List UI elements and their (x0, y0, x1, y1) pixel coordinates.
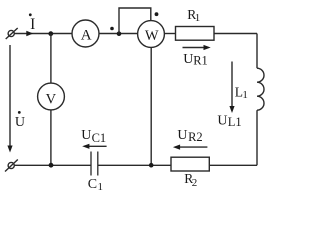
svg-text:U: U (15, 115, 25, 130)
wire: wattmeter down to bottom wire (150, 47, 152, 165)
capacitor C1 (91, 152, 98, 176)
label U_L1 (217, 113, 241, 128)
svg-text:U: U (217, 113, 227, 128)
label U_R2 (177, 128, 202, 144)
node: wattmeter bottom junction (149, 163, 154, 168)
wire: R1 to top-right corner (214, 33, 257, 35)
wire: voltmeter down to bottom node (50, 110, 52, 165)
wire: right side down to inductor (256, 34, 258, 69)
label U_R1 (183, 52, 208, 68)
svg-text:1: 1 (195, 12, 201, 24)
svg-text:U: U (177, 128, 187, 143)
node bottom (voltmeter tap) (49, 163, 54, 168)
voltage arrow U_R1 (183, 45, 211, 50)
label U_C1 (81, 128, 106, 145)
voltmeter V1 (38, 83, 65, 110)
node at wattmeter voltage tap (117, 31, 122, 36)
svg-text:R1: R1 (193, 54, 208, 68)
wattmeter polarity dot right (155, 12, 159, 16)
node top (voltmeter tap) (48, 31, 53, 36)
resistor R1 (176, 27, 215, 41)
voltage arrow U_C1 (82, 144, 106, 149)
svg-text:C1: C1 (92, 131, 107, 145)
svg-text:1: 1 (242, 89, 248, 101)
label I (phasor dot) (29, 13, 35, 33)
source voltage arrow U (7, 45, 12, 153)
svg-text:2: 2 (192, 177, 198, 189)
svg-text:V: V (46, 92, 57, 108)
voltage arrow U_L1 (229, 62, 234, 114)
label U (phasor dot) (15, 111, 25, 130)
wire: ammeter to wattmeter (99, 33, 138, 35)
wire: R2 to capacitor (98, 164, 171, 166)
label R1 (187, 7, 200, 24)
wattmeter polarity dot left (110, 27, 114, 31)
wire: node down to voltmeter (50, 34, 52, 83)
wattmeter W (138, 21, 165, 48)
svg-text:U: U (183, 52, 193, 67)
wire: wattmeter to R1 (164, 33, 175, 35)
svg-text:W: W (145, 28, 159, 44)
wire: inductor down to bottom-right corner (256, 110, 258, 165)
svg-text:A: A (81, 27, 92, 43)
label R2 (184, 171, 197, 189)
inductor L1 (257, 68, 264, 110)
svg-text:L1: L1 (228, 115, 242, 129)
terminal bottom-left (5, 160, 18, 172)
resistor R2 (171, 157, 209, 171)
terminal top-left (6, 28, 18, 39)
label L1 (235, 85, 248, 102)
current arrow I (26, 31, 33, 37)
label C1 (88, 177, 103, 193)
voltage arrow U_R2 (173, 145, 208, 150)
svg-text:R2: R2 (188, 130, 203, 144)
ammeter A1 (72, 20, 99, 47)
svg-text:I: I (30, 16, 35, 33)
wire: wattmeter voltage coil loop (119, 8, 151, 34)
svg-text:U: U (81, 128, 91, 143)
svg-text:C: C (88, 177, 97, 192)
wire: bottom-right corner to R2 (209, 164, 257, 166)
wire: capacitor to bottom-left terminal (14, 164, 90, 166)
wire top: terminal to ammeter (14, 33, 72, 35)
svg-text:1: 1 (98, 181, 104, 193)
